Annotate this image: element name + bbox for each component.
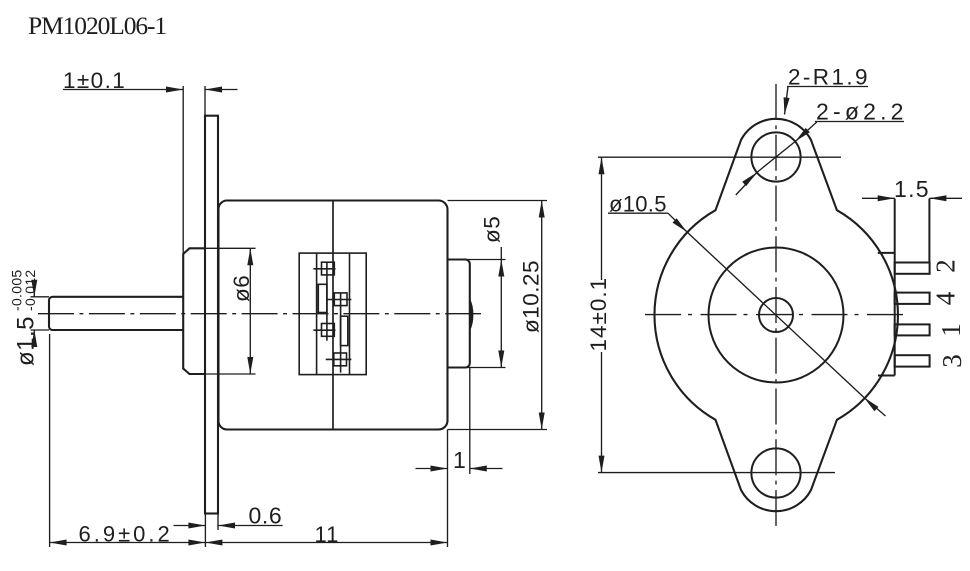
pin 1 [895,324,930,335]
svg-text:1±0.1: 1±0.1 [63,68,126,93]
svg-text:1: 1 [453,447,466,473]
boss [448,260,470,368]
bottom ear hole [751,448,800,497]
pin 3 [895,355,930,366]
shaft [49,297,183,330]
coil rect B [341,316,348,345]
shaft end lens [470,299,474,332]
dimension 2-Ø2.2 leader [736,99,908,196]
right view outline [654,119,897,511]
dimension Ø10.5 leader [608,192,886,417]
svg-text:2: 2 [930,259,960,273]
top ear hole [751,132,800,181]
svg-text:ø6: ø6 [229,275,254,302]
dimension 1±0.1 [63,68,238,254]
terminal square T3 [313,324,335,337]
dimension 0.6 [174,503,283,531]
left view centerline [38,313,481,315]
svg-text:6.9±0.2: 6.9±0.2 [79,522,173,547]
dimension Ø10.25 [448,201,548,430]
svg-text:0.6: 0.6 [249,503,283,529]
shaft circle Ø1.5 [759,298,793,332]
right view horizontal centerline [645,314,903,316]
svg-text:11: 11 [315,522,340,547]
dimension 11 [205,522,447,547]
motor body [219,201,448,430]
pin 2 [895,263,930,274]
connector block [878,199,930,376]
svg-text:ø10.25: ø10.25 [519,260,544,333]
dimension 2-R1.9 leader [784,65,870,115]
pin 4 [895,293,930,304]
dimension 1.5 connector [862,176,962,202]
svg-text:14±0.1: 14±0.1 [586,277,611,352]
winding detail inner verticals [316,253,318,375]
terminal square T2 [326,293,351,373]
rotor circle Ø6 [709,248,844,383]
svg-text:ø1.5: ø1.5 [13,316,40,366]
svg-text:4: 4 [930,291,960,305]
terminal square T1 [313,262,335,341]
dimension 1 boss [416,368,503,548]
svg-text:ø5: ø5 [480,216,505,243]
dimension 6.9±0.2 [50,334,206,547]
dimension 14±0.1 [586,157,841,472]
hub [183,248,205,374]
dimension Ø1.5 tolerances [9,270,50,367]
flange plate [205,116,218,514]
dimension Ø5 [448,216,506,368]
dimension Ø6 [205,248,256,374]
terminal square T4 [326,353,352,366]
svg-text:-0.012: -0.012 [22,270,38,312]
svg-text:2-R1.9: 2-R1.9 [788,65,870,90]
svg-text:2-ø2.2: 2-ø2.2 [816,99,908,125]
svg-text:1: 1 [936,323,966,337]
right view vertical centerline [775,84,777,526]
winding detail outer rect [299,253,366,375]
svg-text:3: 3 [937,354,967,368]
svg-text:1.5: 1.5 [894,176,930,202]
svg-text:PM1020L06-1: PM1020L06-1 [28,11,166,40]
coil rect A [318,284,327,312]
body seam line [332,201,334,430]
